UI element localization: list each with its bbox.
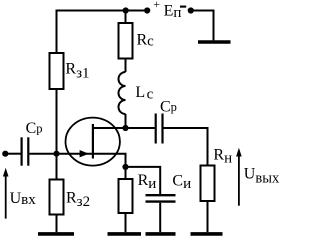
node: source junction dot [122, 164, 128, 170]
wire: left branch between Rз1 and gate node [56, 89, 58, 180]
resistor Rз2 [50, 180, 64, 215]
ground: bar under Си [146, 232, 176, 236]
wire: Rн bottom to ground [207, 201, 209, 232]
capacitor Cp (output coupling) [156, 114, 163, 144]
wire: source node to Rи [125, 167, 127, 179]
resistor Rc [119, 11, 133, 59]
ground: bar under Rи [108, 232, 142, 236]
ground: top-right ground bar [198, 40, 231, 44]
node: - terminal dot of supply [188, 7, 194, 13]
wire: Lc bottom to drain node [125, 114, 127, 128]
label: - sign of supply [180, 6, 186, 8]
wire: source node to Си branch [126, 167, 161, 194]
resistor Rн [201, 166, 215, 202]
capacitor Си [146, 195, 176, 201]
node: junction dot top rail / Rc branch [123, 7, 129, 13]
node: junction dot gate line / divider branch [53, 151, 59, 157]
wire: Си bottom plate to ground [159, 203, 161, 232]
wire: Rи bottom to ground [125, 213, 127, 232]
arrow: Uвх input voltage arrow [3, 168, 9, 219]
wire: Rc bottom to Lc top [125, 59, 127, 73]
arrow: Uвых output voltage arrow [236, 148, 242, 206]
svg-text:+: + [153, 0, 160, 11]
wire: output Cp to Rн branch [164, 128, 208, 166]
resistor Rи [119, 179, 133, 213]
svg-text:Uвх: Uвх [10, 190, 37, 208]
transistor VT1 channel bar [92, 124, 94, 159]
node: + terminal dot of supply [144, 7, 150, 13]
capacitor Cp (input coupling) [22, 137, 29, 165]
wire: top supply rail from left branch corner to + terminal [57, 11, 148, 54]
svg-text:Cр: Cр [160, 99, 177, 116]
svg-text:Lc: Lc [135, 84, 153, 102]
wire: Rз2 bottom to ground [56, 215, 58, 233]
wire: input terminal to Cp [5, 153, 20, 155]
wire: Cp to gate, continues as source line to source corner [29, 154, 125, 167]
inductor Lc [119, 72, 126, 114]
wire: drain line from channel bar to drain node [93, 127, 126, 129]
transistor VT1 gate arrowhead [80, 150, 89, 157]
node: drain junction dot [122, 125, 128, 131]
svg-text:Rc: Rc [137, 31, 155, 49]
wire: drain node to output Cp [126, 127, 155, 129]
svg-text:Си: Си [172, 172, 191, 192]
transistor VT1 (JFET) body circle [66, 118, 120, 166]
svg-text:Еп: Еп [164, 3, 182, 22]
wire: from - terminal to top-right ground [191, 11, 214, 41]
ground: bar under Rз2 [38, 232, 74, 236]
ground: bar under Rн [191, 232, 223, 236]
node: input terminal dot [2, 151, 8, 157]
svg-text:Cр: Cр [26, 120, 43, 137]
resistor Rз1 [50, 53, 64, 89]
